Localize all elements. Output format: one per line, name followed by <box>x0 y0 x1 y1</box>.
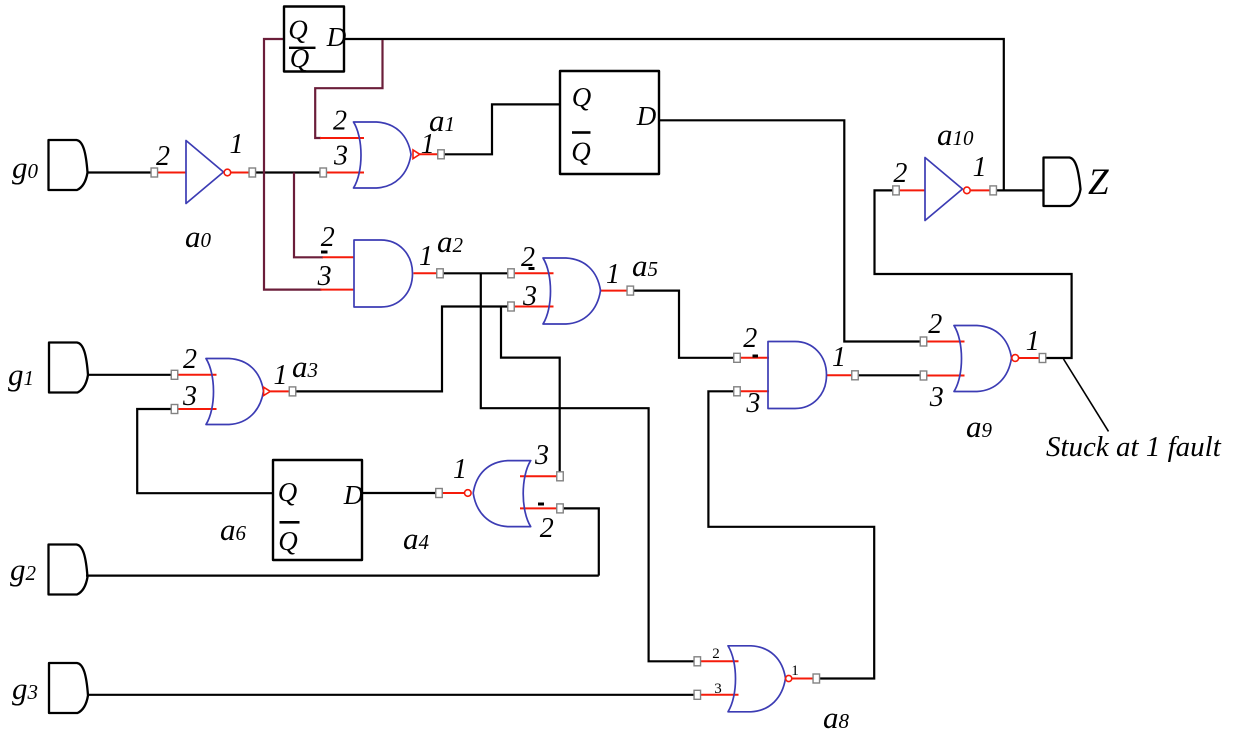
svg-text:g3: g3 <box>12 671 38 706</box>
svg-text:3: 3 <box>745 388 760 419</box>
red stub a4 output <box>443 492 465 494</box>
svg-text:3: 3 <box>534 440 549 471</box>
connector a3 pin3 <box>171 405 178 414</box>
wire a8 output loop to a7 pin3 <box>708 391 874 678</box>
red stub a8 output <box>792 678 813 680</box>
wire g1 to a3 pin2 <box>88 374 171 376</box>
red stub a10 output <box>971 189 990 191</box>
svg-text:Q: Q <box>278 477 298 507</box>
red stub a9 pin3 <box>927 375 965 377</box>
fault dash a7 pin2 <box>753 355 759 358</box>
connector a5 pin3 <box>508 302 515 311</box>
svg-text:Z: Z <box>1088 162 1109 203</box>
red stub a9 pin2 <box>927 341 965 343</box>
red stub a5 pin2 <box>515 272 554 274</box>
connector a8 pin3 <box>694 690 701 699</box>
red stub a2 pin3 <box>321 289 355 291</box>
svg-text:2: 2 <box>712 646 720 662</box>
bubble a0 output <box>224 169 231 176</box>
connector a9 output <box>1039 354 1046 363</box>
wire a6 Q output to a3 pin3 <box>137 409 273 493</box>
wire a0 output node to a1 pin3 <box>256 171 320 173</box>
svg-text:a3: a3 <box>292 349 318 384</box>
bubble a8 output <box>786 675 792 681</box>
connector a1 output <box>438 150 445 159</box>
input port g0 <box>49 140 88 190</box>
or-gate a1 <box>354 122 412 188</box>
connector a4 output <box>436 489 443 498</box>
connector a9 pin2 <box>920 337 927 346</box>
connector a4 pin2 <box>557 504 564 513</box>
red stub a1 output <box>420 153 438 155</box>
red stub a3 pin2 <box>178 374 217 376</box>
red stub a4 pin2 <box>520 507 557 509</box>
svg-text:2: 2 <box>183 344 197 375</box>
connector a1 pin3 <box>320 168 327 177</box>
mirrored or-gate a4 <box>473 461 531 527</box>
svg-text:1: 1 <box>606 259 620 290</box>
connector a10 output <box>990 186 997 195</box>
svg-text:1: 1 <box>274 360 288 391</box>
red stub g0 to a0 <box>156 172 186 174</box>
fault dash a2 pin2 <box>321 251 328 254</box>
fault dash a5 pin2 <box>529 267 535 270</box>
wire maroon FF1 D node to a1 pin2 <box>315 40 382 138</box>
flip-flop box a6 <box>273 460 362 560</box>
wire stuck-at fault pointer line <box>1064 359 1109 431</box>
wire a9 output loop to a10 input <box>875 190 1072 358</box>
svg-text:3: 3 <box>522 281 537 312</box>
svg-text:Q: Q <box>571 137 591 167</box>
input port g1 <box>49 343 88 393</box>
connector a8 pin2 <box>694 657 701 666</box>
red stub a8 pin3 <box>701 694 739 696</box>
red stub a2 pin2 <box>323 256 355 258</box>
wire a3 output to a5 pin3 <box>296 307 508 392</box>
svg-text:2: 2 <box>928 309 942 340</box>
svg-text:D: D <box>326 22 347 52</box>
connector a3 pin2 <box>171 370 178 379</box>
svg-text:2: 2 <box>893 158 907 189</box>
svg-text:1: 1 <box>1026 326 1040 357</box>
wire g0 to a0 input <box>88 171 152 173</box>
red stub a0 output <box>231 172 249 174</box>
connector a3 output <box>289 387 296 396</box>
svg-text:a8: a8 <box>823 700 850 735</box>
svg-text:1: 1 <box>453 454 467 485</box>
input port g2 <box>49 545 88 595</box>
svg-text:2: 2 <box>743 323 757 354</box>
FF2 overline bar <box>572 131 591 134</box>
flip-flop box FF1 <box>284 7 344 72</box>
connector a10 input <box>893 186 900 195</box>
and-gate a2 <box>354 240 413 307</box>
wire a2 output branch down to a8 pin2 <box>481 273 694 661</box>
red stub a5 output <box>600 290 628 292</box>
wire maroon a0 output node to a2 pin2 <box>294 173 323 258</box>
a6 overline bar <box>280 521 300 524</box>
red stub a10 input <box>900 189 926 191</box>
svg-text:g0: g0 <box>12 150 39 185</box>
FF1 fraction bar <box>289 47 316 49</box>
connector a5 output <box>627 286 634 295</box>
red stub a3 output <box>271 390 290 392</box>
output port Z <box>1044 158 1081 207</box>
bubble a4 output <box>465 490 472 497</box>
input port g3 <box>49 663 88 713</box>
wire FF1 D output to Z node <box>344 39 1004 190</box>
wire a5 output to a7 pin2 <box>634 291 734 358</box>
connector a4 pin3 <box>557 472 564 481</box>
and-gate a7 <box>768 342 827 409</box>
svg-text:a4: a4 <box>403 521 430 556</box>
connector a8 output <box>813 674 820 683</box>
svg-text:a10: a10 <box>937 117 974 152</box>
bubble a10 output <box>964 187 971 194</box>
inverter a0 <box>186 141 224 204</box>
red stub a5 pin3 <box>515 306 554 308</box>
svg-text:2: 2 <box>540 513 554 544</box>
flip-flop box FF2 <box>560 71 659 174</box>
svg-text:1: 1 <box>973 152 987 183</box>
connector g0-a0 <box>151 168 158 177</box>
svg-text:3: 3 <box>333 141 348 172</box>
svg-text:2: 2 <box>333 106 347 137</box>
svg-text:Q: Q <box>572 82 592 112</box>
wire a7 output to a9 pin3 <box>859 374 920 376</box>
svg-text:1: 1 <box>230 129 244 160</box>
connector a5 pin2 <box>508 269 515 278</box>
svg-text:Stuck at 1 fault: Stuck at 1 fault <box>1046 431 1222 463</box>
svg-text:1: 1 <box>419 241 433 272</box>
svg-text:1: 1 <box>832 342 846 373</box>
inverter a10 <box>925 158 963 221</box>
svg-text:g2: g2 <box>10 552 37 587</box>
svg-text:a9: a9 <box>966 409 993 444</box>
red stub a1 pin3 <box>327 172 365 174</box>
red stub a3 pin3 <box>178 408 217 410</box>
svg-text:Q: Q <box>290 43 310 73</box>
wire g2 <box>86 574 599 576</box>
red triangle a3 output <box>264 387 271 395</box>
svg-text:3: 3 <box>929 382 944 413</box>
wire maroon FF1 Q to a2 pin3 <box>264 39 322 290</box>
red stub a9 output <box>1019 357 1040 359</box>
svg-text:2: 2 <box>321 222 335 253</box>
connector a7 pin2 <box>734 353 741 362</box>
red stub a1 pin2 <box>320 137 364 139</box>
svg-text:D: D <box>343 480 364 510</box>
wire g3 to a8 pin3 <box>88 694 694 696</box>
or-gate a5 <box>543 258 601 324</box>
svg-text:1: 1 <box>421 129 435 160</box>
svg-text:D: D <box>636 101 657 131</box>
bubble a9 output <box>1012 355 1019 362</box>
wire FF2 D output to a9 pin2 <box>659 120 920 341</box>
svg-text:g1: g1 <box>8 357 34 392</box>
svg-text:a2: a2 <box>437 224 464 259</box>
connector a7 pin3 <box>734 387 741 396</box>
red stub a7 pin2 <box>741 357 770 359</box>
red stub a7 pin3 <box>741 390 770 392</box>
or-gate a9 <box>954 326 1012 392</box>
red triangle a1 output <box>413 150 420 159</box>
svg-text:2: 2 <box>156 141 170 172</box>
red stub a4 pin3 <box>520 475 557 477</box>
or-gate a8 <box>728 646 786 712</box>
svg-text:a5: a5 <box>632 248 658 283</box>
wire a10 output to Z <box>997 189 1043 191</box>
red stub a8 pin2 <box>701 660 739 662</box>
svg-text:a0: a0 <box>185 219 212 254</box>
or-gate a3 <box>206 359 264 425</box>
svg-text:1: 1 <box>791 663 799 679</box>
svg-text:3: 3 <box>182 381 197 412</box>
svg-text:3: 3 <box>317 261 332 292</box>
wire a5 pin3 node jog down to a4 pin3 <box>501 307 560 472</box>
svg-text:3: 3 <box>714 681 722 697</box>
svg-text:a6: a6 <box>220 512 247 547</box>
fault dash a4 pin2 <box>538 503 544 506</box>
svg-text:Q: Q <box>278 526 298 556</box>
red stub a7 output <box>827 374 852 376</box>
wire a6 D input to a4 output connector <box>362 492 436 494</box>
svg-text:Q: Q <box>288 15 308 45</box>
connector a2 output <box>437 269 444 278</box>
wire a4 pin2 down to g2 line <box>564 508 599 575</box>
wire a2 output to a5 pin2 <box>444 272 508 274</box>
connector a9 pin3 <box>920 371 927 380</box>
red stub a2 output <box>414 272 437 274</box>
connector a0 output <box>249 168 256 177</box>
connector a7 output <box>852 371 859 380</box>
wire a1 output to FF2 Q input <box>444 104 560 154</box>
